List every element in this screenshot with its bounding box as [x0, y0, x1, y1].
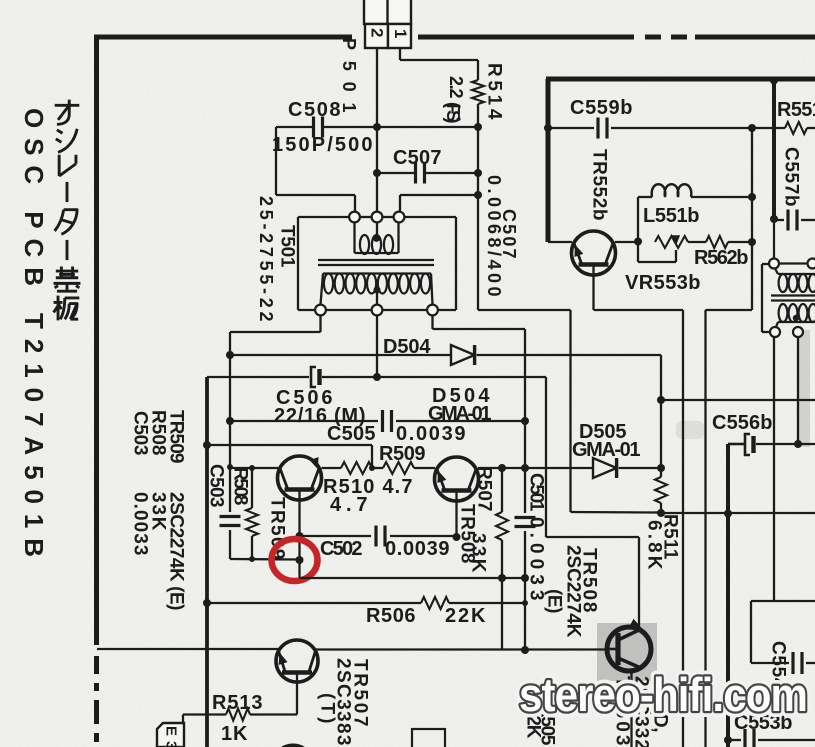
scan artifact small smudge near C505: [676, 421, 704, 439]
node R508 bottom: [249, 556, 255, 562]
svg-text:(FS): (FS): [443, 102, 463, 124]
T551b top winding: [778, 273, 815, 275]
wire TR552b emitter bus: [594, 309, 684, 311]
wire TR552b emitter line: [548, 241, 572, 243]
svg-text:L551b: L551b: [643, 205, 700, 227]
svg-text:C502: C502: [320, 538, 363, 560]
wire T501 left-bottom to bus: [319, 316, 321, 333]
capacitor C501: [515, 516, 536, 519]
T501 top terminal 2: [372, 212, 383, 223]
wire T501 right-bottom jog: [431, 316, 433, 330]
svg-text:R562b: R562b: [694, 247, 749, 269]
svg-text:R509: R509: [379, 443, 426, 465]
wire rail y445: [207, 444, 372, 446]
scan artifact gray streak right edge: [797, 330, 810, 447]
node R507 bottom: [498, 574, 506, 582]
wire TR509 base down: [298, 490, 300, 578]
border top thick line: [94, 35, 352, 40]
wire TR508 base down: [455, 491, 457, 537]
T501 bottom terminal 1: [315, 305, 326, 316]
svg-text:6.8K: 6.8K: [644, 520, 665, 570]
wire R514 down: [477, 104, 479, 310]
b-section thick left border: [546, 79, 551, 242]
wire C554 corner: [751, 600, 815, 602]
wire long vertical x683: [682, 310, 684, 747]
wire C506 line: [207, 376, 309, 378]
T551b bottom terminal 1: [770, 327, 780, 337]
node rail x661: [657, 464, 665, 472]
svg-text:(T): (T): [317, 693, 338, 724]
svg-text:R513: R513: [212, 692, 263, 714]
svg-text:R506: R506: [366, 605, 416, 627]
svg-text:VR553b: VR553b: [625, 272, 701, 294]
capacitor C556b: [745, 434, 750, 455]
node C508/pin2: [373, 123, 381, 131]
capacitor C503 plates: [220, 515, 241, 518]
wire R506 line: [207, 602, 421, 604]
resistor R551b: [785, 122, 807, 134]
partial symbol at bottom edge: [279, 744, 307, 747]
T551b center tap node: [793, 315, 799, 321]
potentiometer VR553b: [655, 236, 688, 248]
node corner x230: [227, 464, 233, 470]
node D504 left: [226, 351, 234, 359]
capacitor C559b: [596, 118, 599, 139]
node R511 top rail: [657, 396, 665, 404]
border left thick line (dash-dot at bottom): [94, 35, 99, 646]
T551b bottom winding: [778, 321, 815, 323]
capacitor C508: [312, 117, 315, 138]
wire x571 link: [478, 309, 571, 311]
svg-text:C507: C507: [393, 147, 442, 169]
T501 bottom terminal 2: [372, 305, 383, 316]
T551b top terminal 1: [769, 259, 779, 269]
node C507 right: [474, 169, 482, 177]
node R511 bottom: [657, 509, 665, 517]
T501 secondary winding: [323, 272, 431, 274]
wire TR503 emitter down: [630, 669, 632, 747]
node C559b left: [544, 124, 552, 132]
capacitor C506 (electrolytic): [311, 367, 316, 387]
node TR509/C502: [296, 532, 304, 540]
node thick top x774: [770, 77, 778, 85]
resistor R508: [246, 508, 258, 536]
wire long vertical x707: [704, 310, 706, 747]
wire rail y468 mid: [322, 467, 342, 469]
node TR552b collector: [634, 238, 642, 246]
resistor R509: [383, 462, 414, 474]
resistor R511: [655, 477, 667, 503]
wire C559b line: [548, 127, 594, 129]
wire T551b drops: [773, 337, 775, 601]
transformer T551b frame: [761, 264, 763, 332]
svg-text:C508: C508: [288, 99, 341, 121]
node rail y445 left: [203, 441, 211, 449]
svg-text:0.0039: 0.0039: [396, 423, 466, 445]
svg-text:GMA-01: GMA-01: [572, 439, 641, 461]
node L551b right: [748, 193, 756, 201]
node TR509 red-junction: [296, 556, 304, 564]
T501 top terminal 1: [349, 212, 360, 223]
resistor R506: [421, 597, 449, 609]
node R562b right: [748, 238, 756, 246]
label oscillator PCB (Japanese): [55, 100, 80, 125]
wire left bus x230: [229, 332, 231, 512]
transistor TR552b: [572, 231, 616, 275]
T551b top terminal 2: [808, 259, 815, 269]
node rail/x525: [521, 646, 529, 654]
svg-text:0.0033: 0.0033: [130, 492, 151, 556]
node C507 left: [373, 169, 381, 177]
wire x774 vertical: [772, 79, 776, 219]
resistor R507: [496, 512, 508, 540]
wire T501 mid-bottom down: [376, 316, 378, 378]
svg-text:4.7: 4.7: [330, 494, 368, 516]
svg-text:C559b: C559b: [570, 97, 633, 119]
svg-text:3: 3: [163, 741, 180, 747]
wire pin2 down: [376, 48, 378, 212]
wire C508 right: [323, 126, 478, 128]
T501 primary tap node: [373, 235, 380, 242]
wire rail y649: [97, 648, 280, 650]
wire rail y468: [230, 467, 278, 469]
node R506 right: [522, 600, 528, 606]
node y195: [474, 191, 482, 199]
wire rail y513: [661, 512, 815, 514]
node C508/R514: [474, 123, 482, 131]
capacitor C554: [791, 652, 794, 674]
transistor TR508: [435, 457, 479, 501]
wire C557b line: [774, 219, 784, 221]
node C559b right: [748, 124, 756, 132]
wire TR552b base down: [592, 265, 594, 310]
capacitor C557b: [786, 210, 789, 231]
svg-text:33K: 33K: [468, 533, 489, 573]
node R506 left: [203, 599, 211, 607]
T501 bottom terminal 3: [427, 305, 438, 316]
svg-text:R551b: R551b: [777, 99, 815, 121]
wire right bus x525: [524, 329, 526, 513]
wire mid y242: [688, 241, 706, 243]
wire L551b right: [691, 196, 752, 198]
node C556b/x798: [794, 440, 802, 448]
svg-text:150P/500: 150P/500: [272, 134, 373, 156]
b-section thick top border: [546, 77, 815, 82]
node C505 left: [226, 417, 234, 425]
wire thick C556b corner: [726, 444, 730, 747]
wire R511 stubs: [660, 400, 662, 477]
wire C556b line: [728, 443, 744, 446]
node x774/C557b: [770, 215, 778, 223]
node rail y578 right: [521, 574, 529, 582]
node rail x525: [521, 464, 529, 472]
node R510/R509 junction: [369, 465, 375, 471]
wire to TR503 collector: [545, 377, 547, 537]
connector E box: [157, 723, 184, 747]
svg-text:2SC2274K: 2SC2274K: [563, 545, 584, 638]
svg-text:TR552b: TR552b: [589, 149, 610, 221]
node rail x502: [498, 464, 506, 472]
node TR508/C502: [453, 533, 461, 541]
svg-text:C501: C501: [526, 473, 547, 512]
wire rail y578: [300, 577, 526, 579]
svg-text:R508: R508: [230, 467, 251, 506]
transformer T501 frame: [297, 217, 299, 310]
svg-text:0.0039: 0.0039: [385, 538, 450, 560]
connector P501 housing: [364, 0, 411, 24]
wire bottom-left rail: [230, 558, 300, 561]
resistor R510: [341, 462, 372, 474]
transistor TR507: [276, 640, 318, 682]
transistor TR503: [607, 627, 651, 671]
node R508 top: [249, 465, 255, 471]
svg-text:C503: C503: [206, 464, 227, 508]
wire D504 line: [230, 354, 451, 356]
node C505 right: [521, 417, 529, 425]
node T501 mid/C506: [373, 373, 381, 381]
resistor R514: [472, 80, 484, 104]
svg-text:C503: C503: [130, 411, 151, 456]
T551b core: [771, 294, 815, 296]
capacitor C505: [381, 410, 384, 432]
T501 primary winding: [353, 223, 355, 254]
capacitor C553b: [743, 729, 746, 747]
svg-text:22K: 22K: [445, 605, 486, 627]
T501 top terminal 3: [394, 212, 405, 223]
wire main vertical x207: [205, 377, 209, 747]
resistor R562b: [706, 236, 728, 248]
annotation red circle: [272, 539, 318, 581]
svg-text:2.2: 2.2: [446, 76, 466, 99]
svg-text:1K: 1K: [221, 723, 248, 745]
node rail y513/thick: [724, 510, 732, 518]
wire pin1 to R514: [399, 48, 401, 60]
svg-text:D504: D504: [383, 336, 431, 358]
wire D504 corner down: [660, 355, 662, 400]
wire TR552b collector line: [615, 241, 638, 243]
wire R507 stubs: [501, 468, 503, 512]
transistor TR509: [278, 456, 322, 500]
wire x752 down: [751, 128, 753, 310]
capacitor C507: [414, 163, 417, 184]
node C553b left: [724, 736, 732, 744]
capacitor C502: [374, 526, 377, 547]
wire C502 line: [300, 535, 372, 537]
svg-text:C557b: C557b: [781, 147, 802, 207]
wire C553b line: [728, 739, 741, 741]
T501 secondary tap node: [373, 286, 380, 293]
wire rail y400: [661, 399, 815, 401]
inductor L551b: [652, 184, 692, 197]
wire rail y468 right: [478, 467, 593, 469]
terminal box bottom: [412, 729, 445, 747]
wire TR507 base down: [296, 672, 298, 715]
wire R513 line: [250, 713, 297, 715]
scan artifact gray blob behind TR503: [597, 623, 657, 681]
svg-text:C505: C505: [327, 423, 376, 445]
wire C508 left loop: [276, 126, 314, 128]
svg-text:2: 2: [368, 28, 387, 38]
wire R562b right: [728, 241, 752, 243]
diode D504: [451, 345, 475, 365]
svg-text:E: E: [163, 726, 180, 737]
svg-text:stereo-hifi.com: stereo-hifi.com: [519, 668, 807, 721]
wire C507: [377, 172, 416, 174]
svg-text:1: 1: [391, 29, 410, 39]
wire L551b left: [637, 197, 639, 242]
diode D505: [593, 458, 617, 478]
wire C505 line: [230, 420, 378, 422]
wire R508 branch: [251, 468, 253, 508]
T551b bottom terminal 2: [793, 327, 803, 337]
T551b top link: [779, 262, 808, 264]
wire upper link y195: [400, 194, 478, 196]
svg-text:C556b: C556b: [712, 412, 773, 434]
resistor R513: [226, 709, 250, 721]
VR553b wiper: [637, 242, 639, 262]
svg-text:T501: T501: [277, 225, 298, 268]
svg-text:(E): (E): [544, 589, 565, 614]
svg-text:R507: R507: [474, 466, 495, 512]
T501 core: [318, 259, 434, 261]
